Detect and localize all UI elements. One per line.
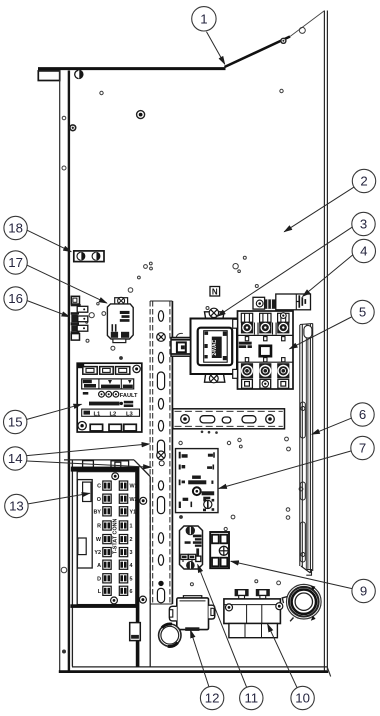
svg-text:L2: L2 [110,411,117,417]
svg-text:O: O [97,497,101,503]
svg-text:3: 3 [360,217,367,232]
svg-text:5: 5 [130,576,133,582]
svg-text:14: 14 [8,451,23,466]
svg-text:1: 1 [130,524,133,530]
svg-text:17: 17 [8,255,23,270]
svg-text:N: N [212,288,218,297]
svg-text:18: 18 [8,221,23,236]
svg-text:11: 11 [244,691,258,706]
svg-text:24VAC: 24VAC [212,339,218,355]
svg-text:1: 1 [200,11,207,26]
svg-text:W2: W2 [130,497,138,503]
svg-text:6: 6 [130,589,133,595]
svg-text:16: 16 [8,291,23,306]
svg-text:9: 9 [360,584,367,599]
svg-text:4: 4 [130,563,133,569]
svg-text:13: 13 [9,499,24,514]
svg-text:12: 12 [205,691,220,706]
svg-text:W1: W1 [130,484,138,490]
svg-text:Y2: Y2 [94,550,101,556]
svg-text:6: 6 [359,407,366,422]
svg-text:2: 2 [130,537,133,543]
svg-text:5: 5 [359,305,366,320]
svg-text:2: 2 [360,174,367,189]
svg-text:15: 15 [8,415,23,430]
svg-text:C: C [97,484,101,490]
svg-text:A: A [97,563,101,569]
svg-text:R: R [97,524,101,530]
svg-text:7: 7 [359,441,366,456]
svg-text:Y1: Y1 [130,509,137,515]
svg-text:3: 3 [130,550,133,556]
svg-text:FAULT: FAULT [120,393,138,399]
svg-text:BY: BY [94,509,102,515]
svg-text:T-STAT CONN: T-STAT CONN [113,518,119,554]
svg-text:L1: L1 [94,411,102,417]
svg-text:L3: L3 [126,411,134,417]
svg-text:4: 4 [360,244,367,259]
svg-text:10: 10 [295,691,310,706]
svg-text:D: D [97,576,101,582]
